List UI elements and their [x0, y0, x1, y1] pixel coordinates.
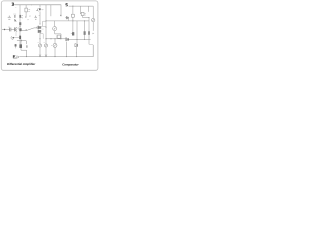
emitter arc Q6 [17, 28, 19, 30]
svg-text:Q1: Q1 [27, 19, 29, 21]
ground G2 [34, 16, 37, 20]
battery E [13, 55, 15, 58]
wire below Q8 [39, 33, 41, 39]
svg-text:Comparator: Comparator [62, 62, 79, 66]
wire y33.9 [55, 34, 61, 39]
rail junction dots [26, 56, 27, 57]
wire drop x88.7 [88, 6, 90, 12]
node Vcc right pin label [66, 4, 68, 6]
mirror Q10 [19, 36, 21, 39]
svg-text:Q3: Q3 [42, 29, 44, 31]
arrow tip [25, 16, 26, 18]
ground G1 [8, 16, 11, 20]
svg-text:Differential Amplifier: Differential Amplifier [7, 62, 36, 66]
wire drop x26 [25, 5, 27, 8]
resistor R4 box [81, 12, 84, 15]
wire main y38.8 [46, 38, 65, 40]
transistor Q3 base bar [14, 15, 17, 18]
resistor R1 box [25, 8, 28, 12]
border frame [1, 1, 98, 70]
wire drop x20 [19, 5, 21, 44]
wire top rail left [15, 4, 61, 6]
wire x21 down [20, 39, 22, 44]
wire x77 vertical [76, 21, 78, 43]
current source CS4 [45, 39, 47, 44]
node dot x61 [60, 15, 61, 16]
transistor Q2 blob [19, 22, 21, 25]
transistor Q8 [37, 30, 40, 33]
svg-text:I2: I2 [44, 42, 45, 44]
input terminal 2 [2, 29, 9, 31]
wire box bottom to bus [83, 16, 89, 18]
resistor R5 marks [88, 31, 90, 35]
wire after C2 [11, 29, 15, 31]
wire diagonal [26, 28, 38, 31]
wire drop x72.9 [72, 6, 74, 14]
current source CS2 [54, 39, 56, 44]
node junction on rail [30, 3, 33, 6]
wire top rail right [69, 5, 94, 7]
transistor Q14 [72, 32, 74, 35]
wire below Q4 [39, 11, 41, 24]
wire x89 vertical [88, 18, 90, 45]
current source CS1 [53, 27, 57, 31]
diode D1 [15, 44, 17, 46]
wire horizontal y40.6 [17, 41, 26, 44]
mirror Q9 circle [11, 36, 13, 39]
transistor Q13 [84, 31, 86, 35]
current source CS6 [75, 44, 76, 47]
wire drop x46 [45, 5, 47, 39]
bus y20.9 [46, 20, 89, 22]
wire step mid [43, 21, 46, 26]
transistor Q11 [19, 44, 22, 48]
current source CS5 [92, 18, 95, 21]
svg-text:I1: I1 [38, 42, 39, 44]
transistor Q1 [19, 15, 21, 18]
transistor Q5 [13, 27, 16, 31]
wire between mirrors [14, 37, 19, 39]
wire drop x40 [39, 5, 41, 8]
wire below R1 [25, 12, 27, 16]
wire bottom rail [19, 45, 93, 57]
wire drop x80.3 [79, 6, 82, 14]
wire drop x51 [50, 5, 52, 17]
resistor R3 box [72, 14, 75, 17]
wire loop to rail [21, 48, 27, 57]
node dot [20, 26, 21, 27]
wire x84.6 [84, 21, 86, 40]
resistor R2 box [57, 35, 60, 38]
wire drop x61 [60, 5, 62, 17]
transistor Q3 emitter [14, 19, 16, 21]
transistor Q15 comparator input [65, 17, 66, 19]
node V+ left pin label [12, 3, 14, 5]
wire drop x93.2 [92, 6, 94, 18]
wire to diagonal [22, 30, 27, 32]
transistor Q12 [66, 38, 67, 42]
transistor Q6 cluster [19, 28, 21, 31]
capacitor C2 plates [10, 28, 11, 32]
marks right of Q11 [26, 45, 28, 48]
transistor Q4 with circle [37, 8, 40, 11]
transistor Q7 [36, 26, 39, 29]
current source CS3 [39, 39, 41, 44]
wire y39.4 right [69, 38, 91, 40]
svg-text:+V: +V [15, 7, 17, 9]
wire from Q5 down [15, 32, 17, 36]
